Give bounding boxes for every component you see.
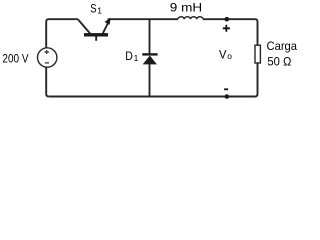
wire top right (inductor to corner) (203, 18, 255, 20)
diode D1 anode triangle (143, 56, 157, 65)
svg-text:9 mH: 9 mH (170, 1, 202, 15)
svg-text:50 Ω: 50 Ω (267, 55, 291, 69)
load resistor rectangle (255, 45, 260, 63)
node dot output bottom (225, 94, 230, 99)
output minus sign (224, 88, 228, 90)
wire middle branch upper (top wire to diode) (149, 19, 151, 53)
inductor L1 coil (178, 17, 203, 20)
svg-text:V: V (219, 48, 226, 62)
transistor switch S1 base stub (95, 37, 97, 41)
svg-text:Carga: Carga (267, 39, 298, 53)
svg-text:200 V: 200 V (2, 52, 28, 66)
voltage source V1 circle (38, 48, 57, 67)
wire bottom-right corner + right vertical above load (255, 63, 258, 97)
wire left-bottom (source bottom to bottom-left corner) (46, 67, 49, 97)
voltage source minus sign (45, 62, 49, 64)
diode D1 cathode bar (142, 53, 157, 55)
svg-text:o: o (227, 51, 232, 61)
wire top-left (left vertical + top-left corner + top run to switch) (46, 19, 78, 48)
transistor switch S1 emitter diagonal (103, 23, 108, 33)
voltage source plus sign (45, 50, 49, 54)
svg-text:1: 1 (134, 53, 139, 63)
svg-text:D: D (125, 49, 133, 63)
transistor switch S1 base bar (84, 33, 108, 36)
wire right vertical (top corner down to load) (255, 19, 258, 45)
svg-text:S: S (90, 2, 96, 16)
node dot output (225, 17, 230, 22)
svg-text:1: 1 (97, 6, 102, 16)
output plus sign (223, 25, 230, 32)
wire top middle (switch to inductor) (108, 18, 178, 20)
wire bottom run (49, 96, 255, 98)
transistor switch S1 emitter arrowhead (105, 18, 111, 25)
wire middle branch lower (diode to bottom wire) (149, 64, 151, 96)
transistor switch S1 collector diagonal (78, 20, 90, 34)
